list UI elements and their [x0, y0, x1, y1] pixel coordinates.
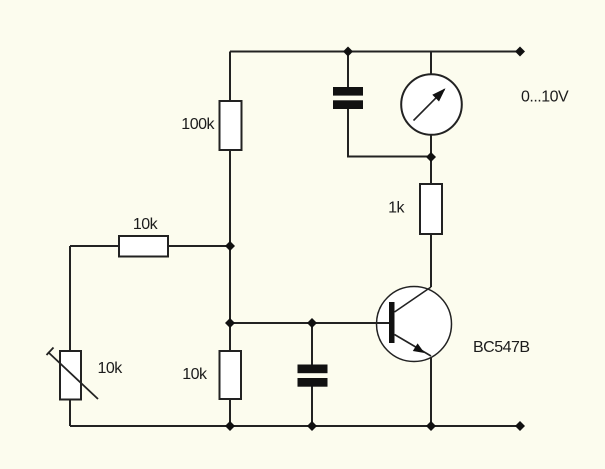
wire 1k top lead	[430, 157, 432, 184]
resistor R4 1k	[420, 184, 442, 234]
wire C2 bottom lead	[311, 385, 313, 426]
resistor R2 10k horizontal	[119, 236, 168, 257]
svg-text:1k: 1k	[388, 200, 405, 217]
wire C1 bottom elbow	[348, 108, 431, 157]
wire 100k bottom to node B1	[229, 150, 231, 246]
svg-text:10k: 10k	[133, 216, 159, 233]
wire bottom rail	[70, 425, 520, 427]
meter M1	[401, 74, 462, 135]
node rail / C2	[307, 421, 317, 431]
wire node B1 to node B2	[229, 246, 231, 323]
node B1 divider	[225, 241, 235, 251]
capacitor C2	[298, 365, 328, 387]
capacitor C1	[333, 87, 363, 109]
wire 100k top	[229, 52, 231, 102]
node rail / 10k	[225, 421, 235, 431]
wire C1 top lead	[347, 52, 349, 88]
wire 10k horizontal left lead	[70, 245, 119, 247]
terminal top right	[515, 47, 525, 57]
transistor Q1 BC547B	[377, 287, 452, 362]
node meter / 1k	[426, 152, 436, 162]
svg-text:100k: 100k	[181, 116, 215, 133]
wire base	[230, 322, 389, 324]
svg-text:10k: 10k	[182, 366, 208, 383]
resistor R3 10k	[220, 351, 242, 399]
wire meter bottom lead	[430, 134, 432, 157]
wire pot to bottom rail	[69, 400, 71, 427]
terminal bottom right	[515, 421, 525, 431]
node base / C2	[307, 318, 317, 328]
node rail / emitter	[426, 421, 436, 431]
node B2 base	[225, 318, 235, 328]
wire 10k horizontal right lead	[168, 245, 230, 247]
wire C2 top lead	[311, 323, 313, 365]
wire emitter to bottom rail	[430, 356, 432, 426]
svg-text:BC547B: BC547B	[473, 339, 530, 356]
resistor R1 100k	[220, 101, 242, 150]
svg-text:10k: 10k	[98, 360, 124, 377]
node top rail / C1	[343, 47, 353, 57]
wire top rail	[230, 51, 520, 53]
wire meter top lead	[430, 52, 432, 76]
wire node B2 to 10k top	[229, 323, 231, 351]
wire pot left riser	[69, 246, 71, 351]
potentiometer P1 10k	[47, 348, 99, 400]
wire 1k to collector	[430, 234, 432, 287]
wire 10k bottom to rail	[229, 399, 231, 426]
svg-text:0...10V: 0...10V	[521, 89, 569, 106]
